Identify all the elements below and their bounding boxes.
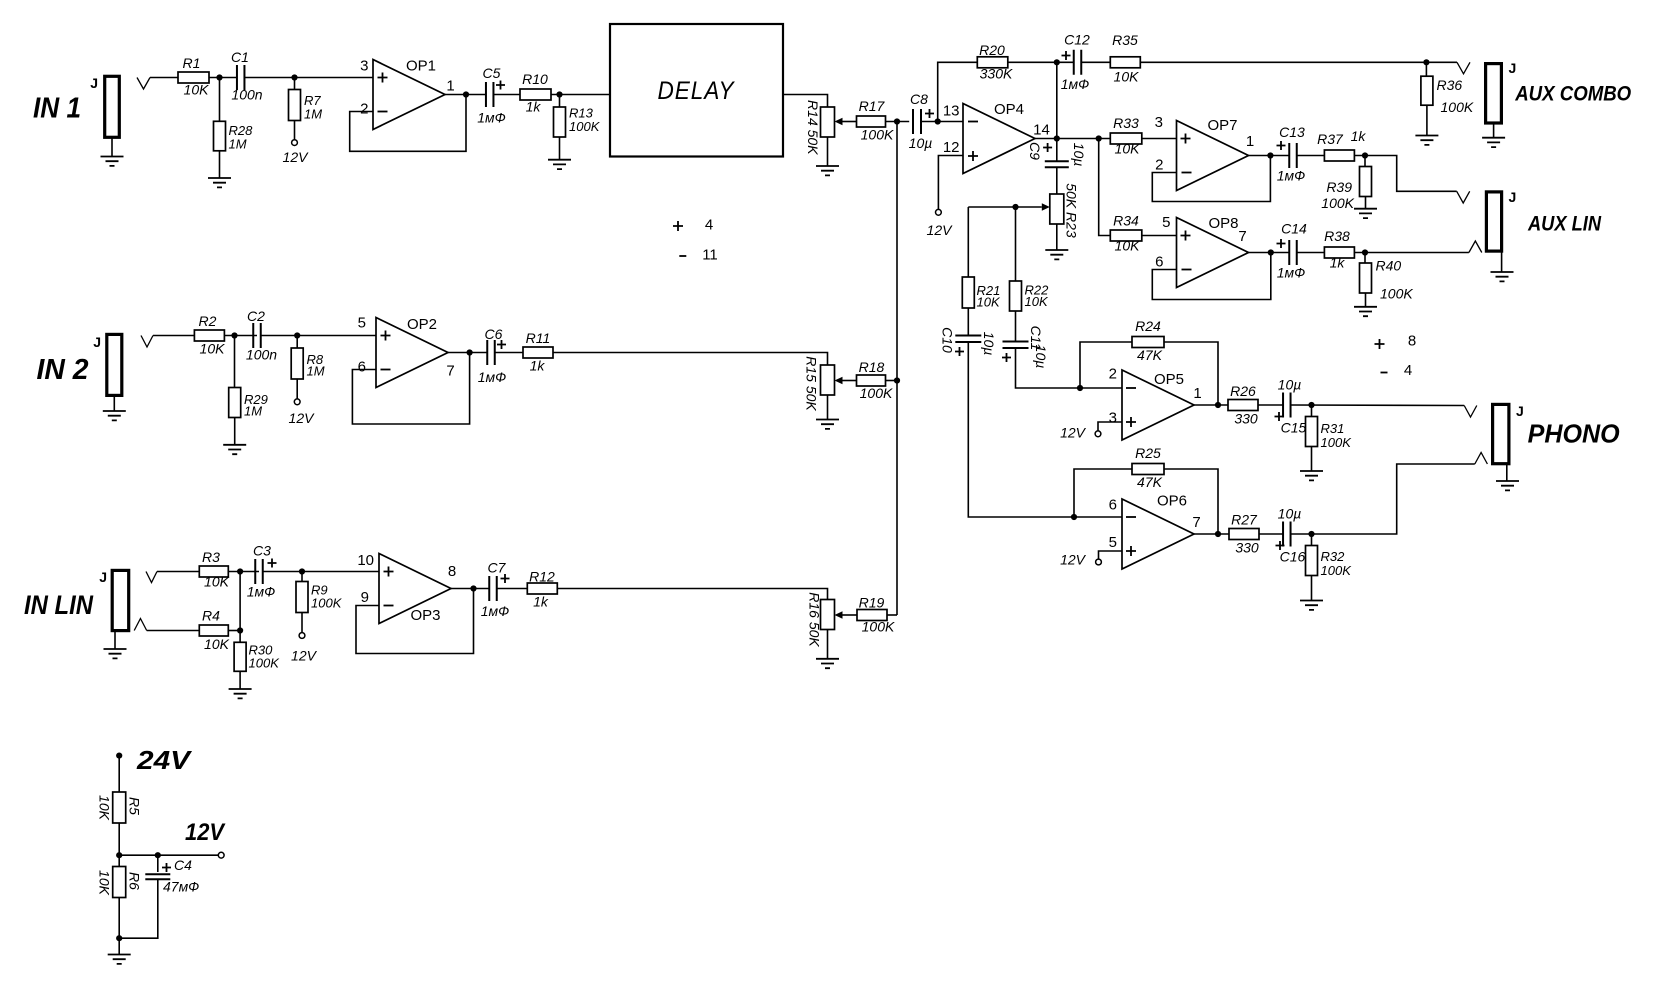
wire xyxy=(1142,235,1177,237)
node (R33/R34 branch) xyxy=(1096,135,1102,141)
wire (C11 to OP5) xyxy=(1016,348,1123,388)
capacitor C2 100n xyxy=(253,323,261,348)
ground (supply) xyxy=(118,938,120,954)
svg-text:R34: R34 xyxy=(1113,213,1139,229)
svg-text:1M: 1M xyxy=(229,137,247,152)
ground (IN 2 jack) xyxy=(113,395,115,411)
output connector A (PHONO ring) xyxy=(1475,453,1488,465)
mix bus wire xyxy=(896,122,898,616)
resistor R34 10K xyxy=(1110,230,1142,241)
wire xyxy=(1008,61,1075,63)
svg-text:C5: C5 xyxy=(483,65,501,81)
svg-text:R24: R24 xyxy=(1135,318,1161,334)
svg-text:1мФ: 1мФ xyxy=(1277,168,1306,184)
wire xyxy=(118,898,120,939)
svg-text:3: 3 xyxy=(1109,410,1117,427)
resistor R22 10K xyxy=(1015,207,1017,281)
svg-text:330: 330 xyxy=(1235,540,1259,556)
resistor R31 100K xyxy=(1311,405,1313,417)
svg-text:5: 5 xyxy=(358,315,366,332)
capacitor C6 1mF xyxy=(487,340,495,365)
resistor R30 100K xyxy=(239,631,241,643)
resistor R19 100K xyxy=(857,610,887,621)
wire xyxy=(494,94,521,96)
wire xyxy=(228,571,259,573)
potentiometer R23 50K xyxy=(1050,194,1064,224)
svg-text:C14: C14 xyxy=(1281,221,1307,237)
svg-text:IN 2: IN 2 xyxy=(37,354,89,386)
node (R37/R39) xyxy=(1362,152,1368,158)
svg-text:PHONO: PHONO xyxy=(1528,421,1620,449)
node (C4 tap) xyxy=(155,852,161,858)
resistor R8 1M xyxy=(296,336,298,349)
svg-text:R18: R18 xyxy=(859,359,885,375)
resistor R25 47K xyxy=(1132,464,1164,475)
resistor R3 10K xyxy=(199,566,228,577)
svg-text:4: 4 xyxy=(1404,362,1412,379)
wire (to AUX COMBO) xyxy=(1140,61,1457,63)
svg-text:100K: 100K xyxy=(1441,99,1474,115)
svg-text:10K: 10K xyxy=(1114,69,1140,85)
svg-text:10K: 10K xyxy=(1115,238,1141,254)
svg-text:J: J xyxy=(1509,189,1517,205)
wire (OP8 output) xyxy=(1249,252,1290,254)
wiper arrow R16 xyxy=(835,611,843,619)
wire (R11 to R15) xyxy=(553,353,828,366)
resistor R4 10K xyxy=(199,625,228,636)
svg-text:1мФ: 1мФ xyxy=(1061,76,1090,92)
svg-text:IN 1: IN 1 xyxy=(33,93,81,125)
svg-text:1k: 1k xyxy=(533,594,549,610)
svg-text:C9: C9 xyxy=(1027,142,1043,160)
resistor R17 100K xyxy=(857,116,886,127)
svg-text:R11: R11 xyxy=(526,330,551,346)
svg-text:6: 6 xyxy=(1155,254,1163,271)
capacitor C5 1mF xyxy=(486,82,494,107)
capacitor C1 100n xyxy=(237,65,245,90)
wire xyxy=(1297,155,1325,157)
resistor R26 330 xyxy=(1228,400,1258,411)
svg-text:47K: 47K xyxy=(1137,347,1163,363)
node (R2/C2/R29) xyxy=(231,332,237,338)
wire xyxy=(150,77,178,79)
node (C11/OP5 -in) xyxy=(1077,385,1083,391)
DELAY block xyxy=(610,24,783,157)
wire (OP3 output) xyxy=(451,588,489,590)
svg-text:1M: 1M xyxy=(244,404,262,419)
ground (PHONO jack) xyxy=(1506,464,1508,481)
svg-text:C1: C1 xyxy=(231,49,249,65)
ground (R30) xyxy=(239,671,241,689)
wire xyxy=(1056,167,1058,194)
resistor R28 1M xyxy=(219,78,221,122)
svg-text:12V: 12V xyxy=(927,222,954,238)
resistor R18 100K xyxy=(857,375,886,386)
ground (IN 1 jack) xyxy=(111,137,113,156)
op-amp OP7 xyxy=(1177,121,1249,191)
link wire R3-R4 nodes xyxy=(239,572,241,631)
svg-text:1k: 1k xyxy=(1351,128,1367,144)
svg-text:R6: R6 xyxy=(127,872,143,890)
wire (C4 to ground node) xyxy=(119,879,158,938)
resistor R21 10K xyxy=(967,207,969,277)
resistor R32 100K xyxy=(1311,534,1313,546)
supply legend +8 -4 xyxy=(1375,339,1385,349)
svg-text:100n: 100n xyxy=(231,87,262,103)
svg-text:OP8: OP8 xyxy=(1208,215,1238,232)
ground (R31) xyxy=(1311,447,1313,472)
svg-text:OP3: OP3 xyxy=(410,607,440,624)
svg-text:DELAY: DELAY xyxy=(658,77,736,105)
svg-text:R1: R1 xyxy=(183,55,201,71)
svg-text:10µ: 10µ xyxy=(1278,377,1302,393)
svg-text:6: 6 xyxy=(1109,497,1117,514)
svg-text:1: 1 xyxy=(1246,133,1254,150)
wire (DELAY output) xyxy=(783,95,828,108)
resistor R39 100K xyxy=(1364,156,1366,167)
node (OP1 out) xyxy=(463,91,469,97)
potentiometer R14 50K xyxy=(821,107,835,137)
svg-text:10K: 10K xyxy=(977,295,1001,310)
node (C16/R32) xyxy=(1308,531,1314,537)
svg-text:14: 14 xyxy=(1033,122,1050,139)
wire (OP4 output) xyxy=(1035,138,1110,140)
svg-text:R10: R10 xyxy=(522,71,548,87)
svg-text:C6: C6 xyxy=(485,326,503,342)
svg-text:10K: 10K xyxy=(97,795,113,821)
12V terminal (supply) xyxy=(218,852,224,858)
resistor R7 1M xyxy=(294,78,296,90)
node (C10/OP6 -in) xyxy=(1071,514,1077,520)
svg-text:R26: R26 xyxy=(1230,383,1256,399)
feedback wire OP2 xyxy=(352,353,469,425)
wire xyxy=(147,630,200,632)
svg-text:100K: 100K xyxy=(311,596,343,611)
node (R20/C12/OP4 out) xyxy=(1054,59,1060,65)
wire (OP7 output) xyxy=(1249,155,1290,157)
capacitor C11 10u xyxy=(1015,311,1017,342)
svg-text:AUX LIN: AUX LIN xyxy=(1527,212,1601,236)
svg-text:12V: 12V xyxy=(291,648,318,664)
svg-text:3: 3 xyxy=(1155,114,1163,131)
wire xyxy=(1081,61,1110,63)
input connector A (IN LIN ring) xyxy=(134,619,147,631)
node (OP7 out) xyxy=(1267,152,1273,158)
wire xyxy=(1258,404,1283,406)
svg-text:4: 4 xyxy=(705,217,713,234)
wire xyxy=(224,335,257,337)
svg-text:OP1: OP1 xyxy=(406,58,436,75)
12V terminal (R8) xyxy=(296,379,298,399)
svg-text:C7: C7 xyxy=(488,560,507,576)
capacitor C8 10u xyxy=(913,109,921,134)
resistor R5 10K xyxy=(113,792,126,823)
potentiometer R15 50K xyxy=(821,365,835,395)
svg-text:10K: 10K xyxy=(184,82,210,98)
jack J (AUX LIN) xyxy=(1486,192,1501,251)
potentiometer R16 50K xyxy=(821,600,835,630)
svg-text:R40: R40 xyxy=(1376,258,1402,274)
svg-text:C3: C3 xyxy=(253,543,271,559)
wire (C12 to OP4 out) xyxy=(1056,62,1058,161)
wire (C10 to OP6) xyxy=(968,342,1122,517)
resistor R29 1M xyxy=(234,336,236,388)
svg-text:1мФ: 1мФ xyxy=(481,603,510,619)
wire xyxy=(263,571,379,573)
svg-text:330K: 330K xyxy=(980,66,1013,82)
resistor R9 100K xyxy=(301,572,303,582)
svg-text:OP4: OP4 xyxy=(994,101,1024,118)
node (OP3 out) xyxy=(470,585,476,591)
svg-text:2: 2 xyxy=(1109,366,1117,383)
svg-text:47мФ: 47мФ xyxy=(163,879,199,895)
svg-text:R3: R3 xyxy=(202,549,220,565)
svg-text:C13: C13 xyxy=(1279,124,1305,140)
wire xyxy=(886,121,910,123)
resistor R33 10K xyxy=(1110,133,1142,144)
ground (R14) xyxy=(827,137,829,166)
capacitor C10 10u xyxy=(967,308,969,336)
node (R38/R40) xyxy=(1362,249,1368,255)
12V terminal (OP5) xyxy=(1098,422,1122,431)
op-amp OP6 xyxy=(1122,499,1194,569)
svg-text:8: 8 xyxy=(448,563,456,580)
wire (OP6 output) xyxy=(1194,533,1229,535)
svg-text:100K: 100K xyxy=(1321,563,1353,578)
svg-text:10K: 10K xyxy=(204,574,230,590)
svg-text:12V: 12V xyxy=(289,410,316,426)
svg-text:C12: C12 xyxy=(1064,32,1090,48)
svg-text:1k: 1k xyxy=(526,99,542,115)
op-amp OP4 xyxy=(963,104,1035,174)
svg-text:6: 6 xyxy=(358,359,366,376)
wire (R12 to R16) xyxy=(557,589,827,600)
wire xyxy=(1164,342,1218,405)
svg-text:R37: R37 xyxy=(1317,131,1344,147)
svg-text:10: 10 xyxy=(357,552,374,569)
resistor R13 100K xyxy=(559,95,561,108)
wire xyxy=(886,380,898,382)
ground (R32) xyxy=(1311,576,1313,601)
resistor R36 100K xyxy=(1425,62,1427,76)
wire xyxy=(551,94,610,96)
wire (OP2 output) xyxy=(448,352,487,354)
wire (OP4 out to R33/R34) xyxy=(1099,139,1111,236)
svg-text:7: 7 xyxy=(1238,228,1246,245)
ground (R15) xyxy=(827,395,829,420)
svg-text:R5: R5 xyxy=(127,797,143,815)
svg-text:10µ: 10µ xyxy=(1071,143,1087,167)
svg-text:100K: 100K xyxy=(249,656,281,671)
12V terminal (OP4) xyxy=(938,156,963,210)
feedback wire R24 xyxy=(1080,342,1132,388)
svg-text:AUX COMBO: AUX COMBO xyxy=(1514,82,1631,106)
svg-text:12V: 12V xyxy=(283,149,310,165)
resistor R24 47K xyxy=(1132,337,1164,348)
svg-text:12V: 12V xyxy=(1060,425,1087,441)
capacitor C13 1mF xyxy=(1289,143,1297,168)
node (R18/bus) xyxy=(894,377,900,383)
node (C2/R8/OP2) xyxy=(294,332,300,338)
node (C15/R31) xyxy=(1308,402,1314,408)
svg-text:IN LIN: IN LIN xyxy=(24,590,93,620)
resistor R27 330 xyxy=(1229,529,1259,540)
node (R1/C1/R28) xyxy=(216,74,222,80)
svg-text:10µ: 10µ xyxy=(981,332,997,356)
capacitor C7 1mF xyxy=(489,576,497,601)
svg-text:8: 8 xyxy=(1408,333,1416,350)
svg-text:24V: 24V xyxy=(136,745,193,775)
svg-text:R38: R38 xyxy=(1324,228,1350,244)
svg-text:7: 7 xyxy=(1192,514,1200,531)
node (C1/R7/OP1) xyxy=(291,74,297,80)
12V terminal (R9) xyxy=(301,613,303,633)
svg-text:1k: 1k xyxy=(1330,255,1346,271)
wire xyxy=(228,630,240,632)
svg-text:100K: 100K xyxy=(1321,435,1353,450)
wire (12V line) xyxy=(119,854,218,856)
svg-text:100n: 100n xyxy=(246,347,277,363)
capacitor C14 1mF xyxy=(1289,240,1297,265)
svg-text:3: 3 xyxy=(360,58,368,75)
jack J (AUX COMBO) xyxy=(1486,64,1502,123)
wire xyxy=(495,352,523,354)
feedback wire OP8 xyxy=(1152,253,1271,300)
op-amp OP8 xyxy=(1177,218,1249,288)
svg-text:100K: 100K xyxy=(861,127,894,143)
svg-text:10K: 10K xyxy=(1025,294,1049,309)
svg-text:12V: 12V xyxy=(1060,552,1087,568)
ground (AUX COMBO jack) xyxy=(1493,123,1495,138)
input connector V (IN LIN) xyxy=(146,572,157,583)
node (R17/bus/C8) xyxy=(894,118,900,124)
node (OP2 out) xyxy=(467,349,473,355)
svg-text:10K: 10K xyxy=(204,636,230,652)
op-amp OP3 xyxy=(379,554,451,624)
ground (R28) xyxy=(219,151,221,178)
svg-text:R19: R19 xyxy=(859,595,885,611)
svg-text:R16 50K: R16 50K xyxy=(807,592,823,647)
svg-text:R20: R20 xyxy=(979,42,1005,58)
svg-text:R15 50K: R15 50K xyxy=(804,356,820,411)
resistor R11 1k xyxy=(523,347,553,358)
capacitor C15 10u xyxy=(1283,393,1291,418)
svg-text:R12: R12 xyxy=(529,569,555,585)
svg-text:OP5: OP5 xyxy=(1154,371,1184,388)
svg-text:100K: 100K xyxy=(1321,195,1354,211)
svg-text:10µ: 10µ xyxy=(909,135,933,151)
ground (IN LIN jack) xyxy=(114,631,116,649)
output connector A (AUX LIN ring) xyxy=(1469,241,1482,253)
svg-text:10µ: 10µ xyxy=(1033,345,1049,369)
svg-text:OP7: OP7 xyxy=(1207,117,1237,134)
svg-text:12V: 12V xyxy=(185,819,226,846)
24V terminal xyxy=(116,753,122,759)
resistor R1 10K xyxy=(178,72,209,83)
svg-text:R2: R2 xyxy=(199,313,217,329)
node (R4/R30) xyxy=(237,627,243,633)
svg-text:J: J xyxy=(1509,60,1517,76)
output connector V (AUX LIN tip) xyxy=(1457,191,1470,203)
wire xyxy=(261,335,376,337)
node (R23 wiper/R22) xyxy=(1012,204,1018,210)
node (R36) xyxy=(1423,59,1429,65)
svg-text:1мФ: 1мФ xyxy=(1277,265,1306,281)
node (R5/R6/12V) xyxy=(116,852,122,858)
capacitor C12 1mF xyxy=(1062,51,1071,60)
resistor R10 1k xyxy=(520,89,551,100)
svg-text:1: 1 xyxy=(446,78,454,95)
svg-text:10K: 10K xyxy=(200,341,226,357)
wiper arrow R15 xyxy=(835,377,843,385)
svg-text:2: 2 xyxy=(1155,157,1163,174)
svg-text:1M: 1M xyxy=(304,107,322,122)
capacitor C4 47mF xyxy=(157,855,159,872)
supply legend +4 -11 xyxy=(673,221,683,231)
resistor R38 1k xyxy=(1324,247,1354,258)
ground (R39) xyxy=(1365,197,1367,209)
svg-text:OP2: OP2 xyxy=(407,316,437,333)
input connector V (IN 1) xyxy=(137,78,150,90)
wire (to AUX LIN tip) xyxy=(1354,156,1456,192)
svg-text:9: 9 xyxy=(361,589,369,606)
svg-text:R31: R31 xyxy=(1321,421,1345,436)
feedback wire OP7 xyxy=(1152,156,1270,202)
svg-text:1M: 1M xyxy=(307,364,325,379)
svg-text:C15: C15 xyxy=(1281,420,1307,436)
svg-text:13: 13 xyxy=(943,103,960,120)
svg-text:100K: 100K xyxy=(569,119,601,134)
resistor R37 1k xyxy=(1324,150,1354,161)
wire xyxy=(209,77,237,79)
feedback wire R20 xyxy=(938,62,978,121)
output connector V (PHONO tip) xyxy=(1464,406,1477,418)
svg-text:10K: 10K xyxy=(97,870,113,896)
resistor R35 10K xyxy=(1110,57,1140,68)
output connector V (AUX COMBO) xyxy=(1457,62,1470,74)
svg-text:1мФ: 1мФ xyxy=(478,369,507,385)
svg-text:OP6: OP6 xyxy=(1157,493,1187,510)
svg-text:R14 50K: R14 50K xyxy=(805,100,821,155)
wire xyxy=(153,335,194,337)
wire xyxy=(1291,404,1465,407)
node (OP6 out/R25) xyxy=(1215,531,1221,537)
svg-text:R32: R32 xyxy=(1321,549,1346,564)
svg-text:R33: R33 xyxy=(1113,115,1139,131)
capacitor C9 10u xyxy=(1045,161,1069,167)
svg-text:C16: C16 xyxy=(1280,549,1306,565)
svg-text:R27: R27 xyxy=(1231,512,1258,528)
node (C3/R9/OP3) xyxy=(299,568,305,574)
node (OP5 out/R24) xyxy=(1215,402,1221,408)
svg-text:10µ: 10µ xyxy=(1278,506,1302,522)
op-amp OP2 xyxy=(376,318,448,388)
wire xyxy=(1297,252,1325,254)
resistor R20 330K xyxy=(977,57,1008,68)
svg-text:R25: R25 xyxy=(1135,445,1161,461)
svg-text:R39: R39 xyxy=(1326,179,1352,195)
ground (R13) xyxy=(559,137,561,160)
ground (R29) xyxy=(234,418,236,445)
svg-text:10K: 10K xyxy=(1115,141,1141,157)
feedback wire R25 xyxy=(1074,469,1132,517)
wire (OP5 output) xyxy=(1194,404,1228,406)
svg-text:J: J xyxy=(93,334,101,350)
svg-text:C2: C2 xyxy=(247,308,265,324)
node (OP8 out) xyxy=(1268,249,1274,255)
ground (R23) xyxy=(1056,224,1058,250)
wire xyxy=(118,823,120,867)
